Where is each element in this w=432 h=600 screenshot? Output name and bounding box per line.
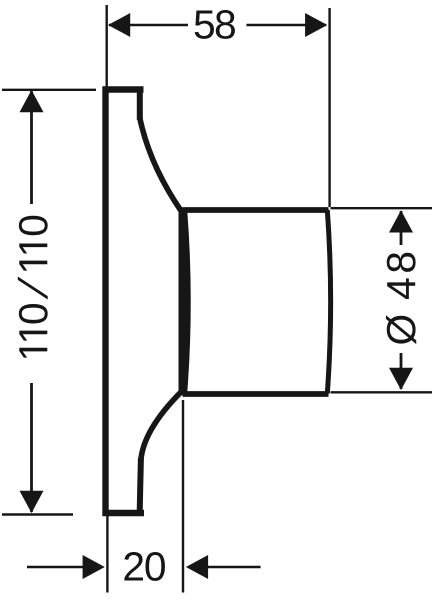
dimension diameter 48 arrow up	[389, 210, 413, 232]
dimension 110/110 line lower shaft	[30, 383, 33, 512]
dimension 110/110 line upper shaft	[30, 91, 33, 204]
dimension 110/110 label	[19, 216, 48, 235]
plate right edge top segment	[137, 87, 143, 121]
dimension 58 line right shaft	[246, 24, 326, 26]
dimension 20 label	[124, 552, 143, 580]
sleeve cylinder bottom edge	[183, 391, 329, 397]
dimension 20 line right shaft	[206, 566, 261, 568]
plate right edge bottom segment	[140, 458, 141, 516]
dimension diameter 48 arrow down	[389, 368, 413, 390]
dimension diameter 48 extension line bottom	[331, 391, 432, 393]
trumpet curve top	[140, 118, 182, 212]
dimension diameter 48 extension line top	[331, 207, 432, 209]
dimension 58 extension line right	[328, 8, 330, 207]
dimension 20 arrow right pointing left	[186, 555, 208, 579]
dimension 58 arrow right	[305, 13, 327, 37]
dimension 58 arrow left	[108, 13, 130, 37]
dimension 20 arrow left pointing right	[83, 555, 105, 579]
escutcheon plate outline	[106, 90, 145, 514]
dimension 20 extension line left	[106, 515, 108, 593]
dimension diameter 48 line lower shaft	[400, 353, 403, 389]
dimension 110/110 arrow down	[20, 491, 44, 513]
dimension 58 extension line left	[105, 5, 107, 87]
junction edge trumpet side	[179, 208, 185, 396]
dimension 110/110 extension line top	[2, 89, 96, 91]
dimension 110/110 arrow up	[20, 90, 44, 112]
dimension 110/110 extension line bottom	[2, 513, 73, 515]
dimension diameter 48 label	[387, 253, 416, 272]
dimension 58 label	[195, 10, 214, 38]
trumpet curve bottom	[141, 392, 182, 462]
junction edge cylinder side	[184, 211, 188, 393]
dimension 58 line left shaft	[109, 24, 188, 26]
dimension 20 extension line right	[182, 400, 184, 593]
dimension 20 line left shaft	[27, 566, 85, 568]
dimension diameter 48 line upper shaft	[400, 211, 403, 245]
sleeve cylinder top edge	[183, 207, 329, 213]
sleeve cylinder right face edge	[327, 210, 330, 394]
